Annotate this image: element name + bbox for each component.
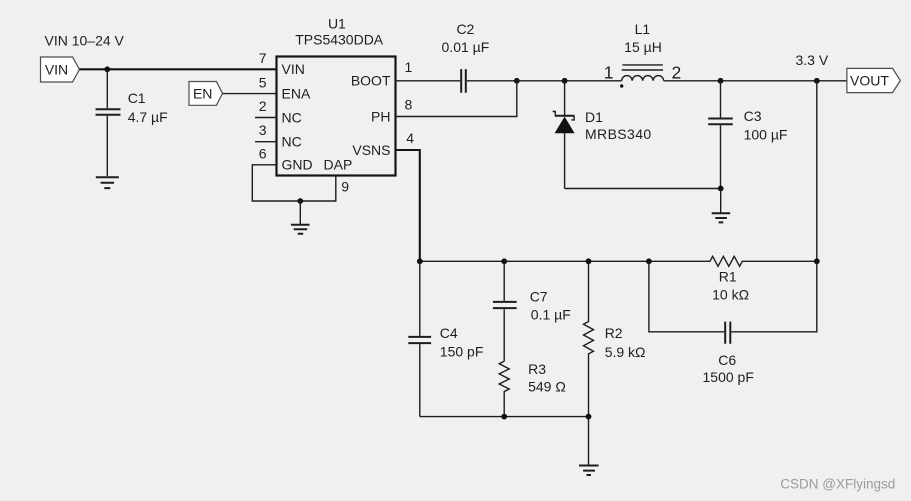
wire PH pin 8 up to node <box>396 81 517 117</box>
svg-text:C3: C3 <box>744 108 762 124</box>
pin number 6 <box>259 146 267 162</box>
svg-text:7: 7 <box>259 50 267 66</box>
wire bottom rail C4 to R2 <box>420 416 589 418</box>
svg-text:5.9 kΩ: 5.9 kΩ <box>605 344 646 360</box>
svg-text:VOUT: VOUT <box>850 72 889 88</box>
net tag EN <box>189 82 223 106</box>
net label 3.3 V <box>796 52 829 68</box>
C2 label 0.01 uF <box>442 21 490 55</box>
svg-text:PH: PH <box>371 108 390 124</box>
wire C2 to BOOT/PH node <box>467 80 517 82</box>
svg-text:10 kΩ: 10 kΩ <box>712 286 749 302</box>
svg-text:6: 6 <box>259 146 267 162</box>
svg-text:4: 4 <box>406 130 414 146</box>
net tag VOUT <box>847 68 900 92</box>
wire EN to pin 5 <box>223 93 277 95</box>
svg-text:549 Ω: 549 Ω <box>528 379 566 395</box>
node R2 top junction <box>586 258 592 264</box>
svg-text:C2: C2 <box>456 21 474 37</box>
pin number 9 <box>341 179 349 195</box>
pin number 7 <box>259 50 267 66</box>
svg-text:100 µF: 100 µF <box>744 127 788 143</box>
node D1 top junction <box>562 78 568 84</box>
svg-text:GND: GND <box>282 157 313 173</box>
svg-text:15 µH: 15 µH <box>624 39 662 55</box>
svg-text:VSNS: VSNS <box>352 142 390 158</box>
wire D1 anode to C3 bottom <box>565 188 721 190</box>
svg-text:0.1 µF: 0.1 µF <box>531 307 571 323</box>
wire node to L1 <box>517 80 622 82</box>
resistor R1 <box>649 256 817 266</box>
pin number 1 <box>405 59 413 75</box>
svg-text:TPS5430DDA: TPS5430DDA <box>295 32 384 48</box>
capacitor C1 <box>96 69 121 176</box>
svg-text:VIN 10–24 V: VIN 10–24 V <box>45 33 125 49</box>
pin number 3 <box>259 122 267 138</box>
svg-text:150 pF: 150 pF <box>440 343 484 359</box>
svg-text:D1: D1 <box>585 109 603 125</box>
node R3 bottom junction <box>501 414 507 420</box>
R2 label 5.9 kOhm <box>605 325 646 360</box>
node C3 top junction <box>718 78 724 84</box>
node R1 left junction <box>646 258 652 264</box>
L1 pin number 1 <box>604 63 614 83</box>
R3 label 549 Ohm <box>528 361 566 394</box>
svg-text:0.01 µF: 0.01 µF <box>442 39 490 55</box>
node R2 bottom junction <box>586 414 592 420</box>
pin number 8 <box>405 96 413 112</box>
node C4 junction <box>417 258 423 264</box>
L1 pin number 2 <box>672 63 682 83</box>
C3 label 100 uF <box>744 108 788 142</box>
inductor L1 <box>620 65 664 88</box>
node D1/C3 bottom junction <box>718 186 724 192</box>
U1 designator label <box>295 16 384 48</box>
svg-text:R3: R3 <box>528 361 546 377</box>
svg-text:MRBS340: MRBS340 <box>585 126 652 142</box>
wire feedback rail <box>420 260 649 262</box>
diode D1 MRBS340 <box>553 81 575 189</box>
ground below C1 <box>96 177 119 188</box>
C6 label 1500 pF <box>703 352 754 385</box>
C4 label 150 pF <box>440 325 484 359</box>
svg-text:C6: C6 <box>718 352 736 368</box>
capacitor C4 <box>408 261 431 416</box>
L1 label 15 uH <box>624 21 662 55</box>
node BOOT/PH junction <box>514 78 520 84</box>
svg-text:L1: L1 <box>635 21 651 37</box>
wire GND pin 6 to DAP <box>252 165 335 201</box>
svg-text:8: 8 <box>405 96 413 112</box>
svg-text:VIN: VIN <box>45 61 68 77</box>
op-amp U1 TPS5430DDA box <box>277 57 396 176</box>
capacitor C2 <box>461 69 466 93</box>
svg-text:DAP: DAP <box>324 157 353 173</box>
C7 label 0.1 uF <box>530 288 571 322</box>
watermark CSDN @XFlyingsd <box>780 477 895 492</box>
svg-text:3: 3 <box>259 122 267 138</box>
C1 label 4.7 uF <box>128 90 168 125</box>
wire L1 to VOUT <box>664 80 847 82</box>
svg-text:EN: EN <box>193 85 212 101</box>
svg-text:1: 1 <box>604 63 614 83</box>
svg-text:C1: C1 <box>128 90 146 106</box>
svg-text:1500 pF: 1500 pF <box>703 369 754 385</box>
wire NC pin 2 stub <box>255 117 277 119</box>
pin number 2 <box>259 98 267 114</box>
pin number 4 <box>406 130 414 146</box>
svg-text:C7: C7 <box>530 288 548 304</box>
pin number 5 <box>259 74 267 90</box>
net label VIN 10-24 V <box>45 33 125 49</box>
capacitor C6 <box>649 261 817 343</box>
wire VIN rail to pin 7 <box>80 68 277 70</box>
node VOUT/feedback junction <box>814 78 820 84</box>
R1 label 10 kOhm <box>712 268 749 302</box>
svg-text:C4: C4 <box>440 325 458 341</box>
svg-text:2: 2 <box>259 98 267 114</box>
wire BOOT pin 1 to C2 <box>396 80 461 82</box>
net tag VIN <box>41 57 80 82</box>
node GND/DAP junction <box>297 198 303 204</box>
capacitor C3 <box>708 81 733 189</box>
svg-text:4.7 µF: 4.7 µF <box>128 109 168 125</box>
wire feedback vertical from VOUT node <box>816 81 818 261</box>
svg-text:R1: R1 <box>719 268 737 284</box>
svg-text:NC: NC <box>282 134 302 150</box>
capacitor C7 <box>493 261 517 361</box>
D1 label MRBS340 <box>585 109 652 142</box>
wire VSNS pin 4 down to feedback rail <box>396 150 420 261</box>
svg-text:U1: U1 <box>328 16 346 32</box>
resistor R2 <box>584 261 594 416</box>
svg-text:BOOT: BOOT <box>351 73 391 89</box>
ground below C3 <box>712 189 731 223</box>
ground below R2 <box>579 417 599 475</box>
svg-text:ENA: ENA <box>282 86 311 102</box>
node R1 right junction <box>814 258 820 264</box>
resistor R3 <box>499 361 509 416</box>
svg-text:2: 2 <box>672 63 682 83</box>
ground below U1 GND/DAP <box>291 201 310 234</box>
svg-text:3.3 V: 3.3 V <box>796 52 829 68</box>
svg-text:VIN: VIN <box>282 61 305 77</box>
node C7 top junction <box>501 258 507 264</box>
node VIN/C1 junction <box>104 66 110 72</box>
U1 pin labels right <box>351 73 391 158</box>
svg-text:9: 9 <box>341 179 349 195</box>
U1 pin labels left <box>282 61 353 173</box>
svg-text:R2: R2 <box>605 325 623 341</box>
svg-text:NC: NC <box>282 109 302 125</box>
svg-text:1: 1 <box>405 59 413 75</box>
svg-text:5: 5 <box>259 74 267 90</box>
svg-text:CSDN @XFlyingsd: CSDN @XFlyingsd <box>780 477 895 492</box>
wire NC pin 3 stub <box>255 141 277 143</box>
